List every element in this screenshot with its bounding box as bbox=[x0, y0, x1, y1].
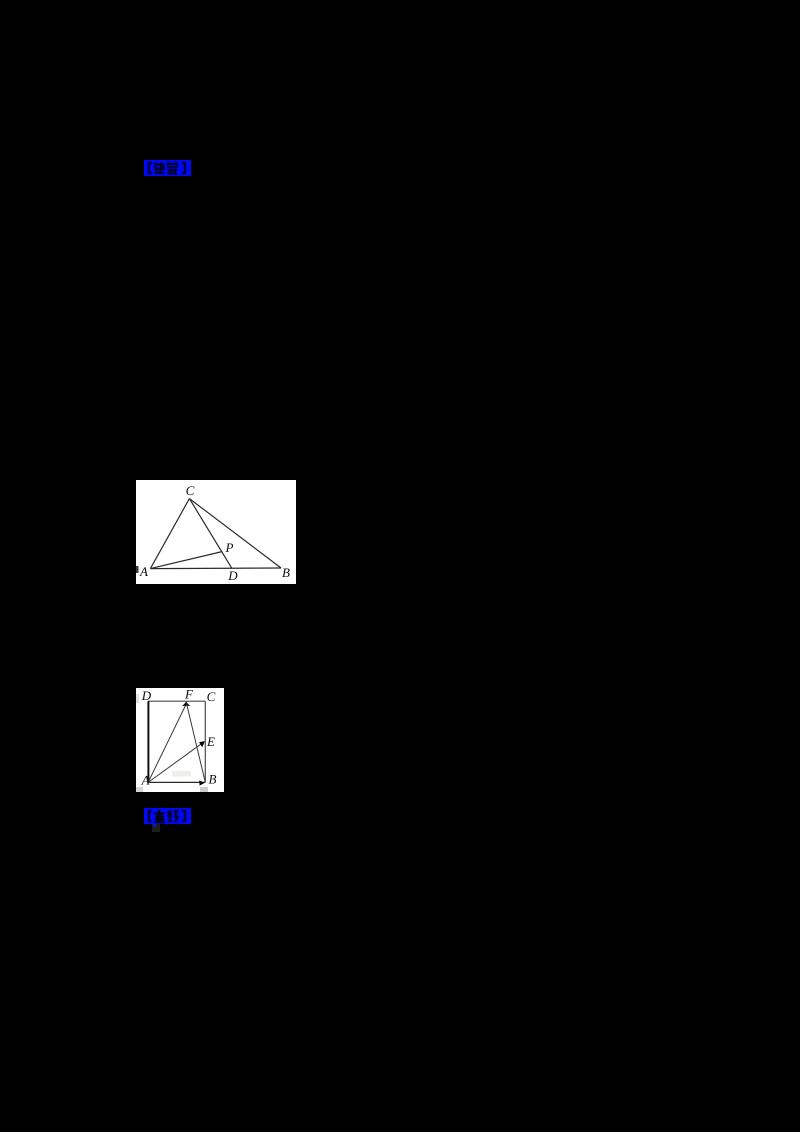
rectangle side CB (right) bbox=[204, 701, 206, 782]
scan smudge left of D bbox=[136, 694, 139, 703]
label E bbox=[206, 734, 215, 749]
scan smudge below B bbox=[200, 787, 208, 792]
line AC bbox=[150, 499, 189, 569]
svg-text:F: F bbox=[184, 688, 194, 702]
label B bbox=[209, 772, 217, 787]
svg-text:C: C bbox=[186, 483, 195, 498]
bracket right bbox=[182, 163, 185, 173]
svg-text:P: P bbox=[225, 540, 234, 555]
line CD bbox=[189, 499, 232, 569]
svg-text:D: D bbox=[141, 688, 152, 703]
rectangle side DA (left, bold) bbox=[147, 701, 149, 782]
svg-text:A: A bbox=[141, 773, 150, 788]
label C bbox=[207, 689, 216, 704]
vector AB arrowhead bbox=[199, 780, 204, 785]
label A bbox=[139, 564, 148, 579]
svg-text:E: E bbox=[206, 734, 215, 749]
svg-text:D: D bbox=[227, 568, 238, 583]
scan smudge bottom left corner bbox=[136, 787, 143, 792]
label P bbox=[225, 540, 234, 555]
segment FB bbox=[186, 703, 205, 783]
label D bbox=[141, 688, 152, 703]
rectangle side DC (top) bbox=[148, 700, 205, 702]
blue descender notch under header 2 bbox=[153, 824, 155, 827]
glyph blob 2 bbox=[167, 162, 178, 174]
label A bbox=[141, 773, 150, 788]
glyph blob 1 bbox=[155, 810, 165, 822]
label C bbox=[186, 483, 195, 498]
figure 2: rectangle ABCD with vectors AF, AE, AB and segment FB bbox=[136, 688, 224, 792]
figure 1: triangle ABC with cevian CD and segment AP bbox=[136, 480, 296, 584]
label F bbox=[184, 687, 194, 702]
line AB bbox=[150, 567, 281, 570]
highlighted section header 1 (blue tag) bbox=[144, 160, 191, 176]
scan smudge bottom center bbox=[172, 771, 191, 777]
svg-text:A: A bbox=[139, 564, 148, 579]
edge artifact near A bbox=[136, 566, 139, 573]
svg-text:B: B bbox=[282, 565, 290, 580]
highlighted section header 2 (blue tag) bbox=[144, 808, 191, 824]
rectangle side AB (bottom) bbox=[148, 781, 205, 783]
bracket left bbox=[149, 163, 152, 173]
vector AE bbox=[148, 741, 205, 782]
glyph blob 2 bbox=[168, 810, 179, 822]
svg-text:C: C bbox=[207, 689, 216, 704]
gray descender artifact under header 2 bbox=[152, 824, 160, 832]
line CB bbox=[189, 499, 281, 568]
bracket left bbox=[149, 811, 152, 821]
label B bbox=[282, 565, 290, 580]
line AP bbox=[150, 552, 222, 569]
svg-text:B: B bbox=[209, 772, 217, 787]
label D bbox=[227, 568, 238, 583]
glyph blob 1 bbox=[155, 163, 165, 174]
bracket right bbox=[182, 811, 185, 821]
vector AF bbox=[148, 701, 190, 782]
